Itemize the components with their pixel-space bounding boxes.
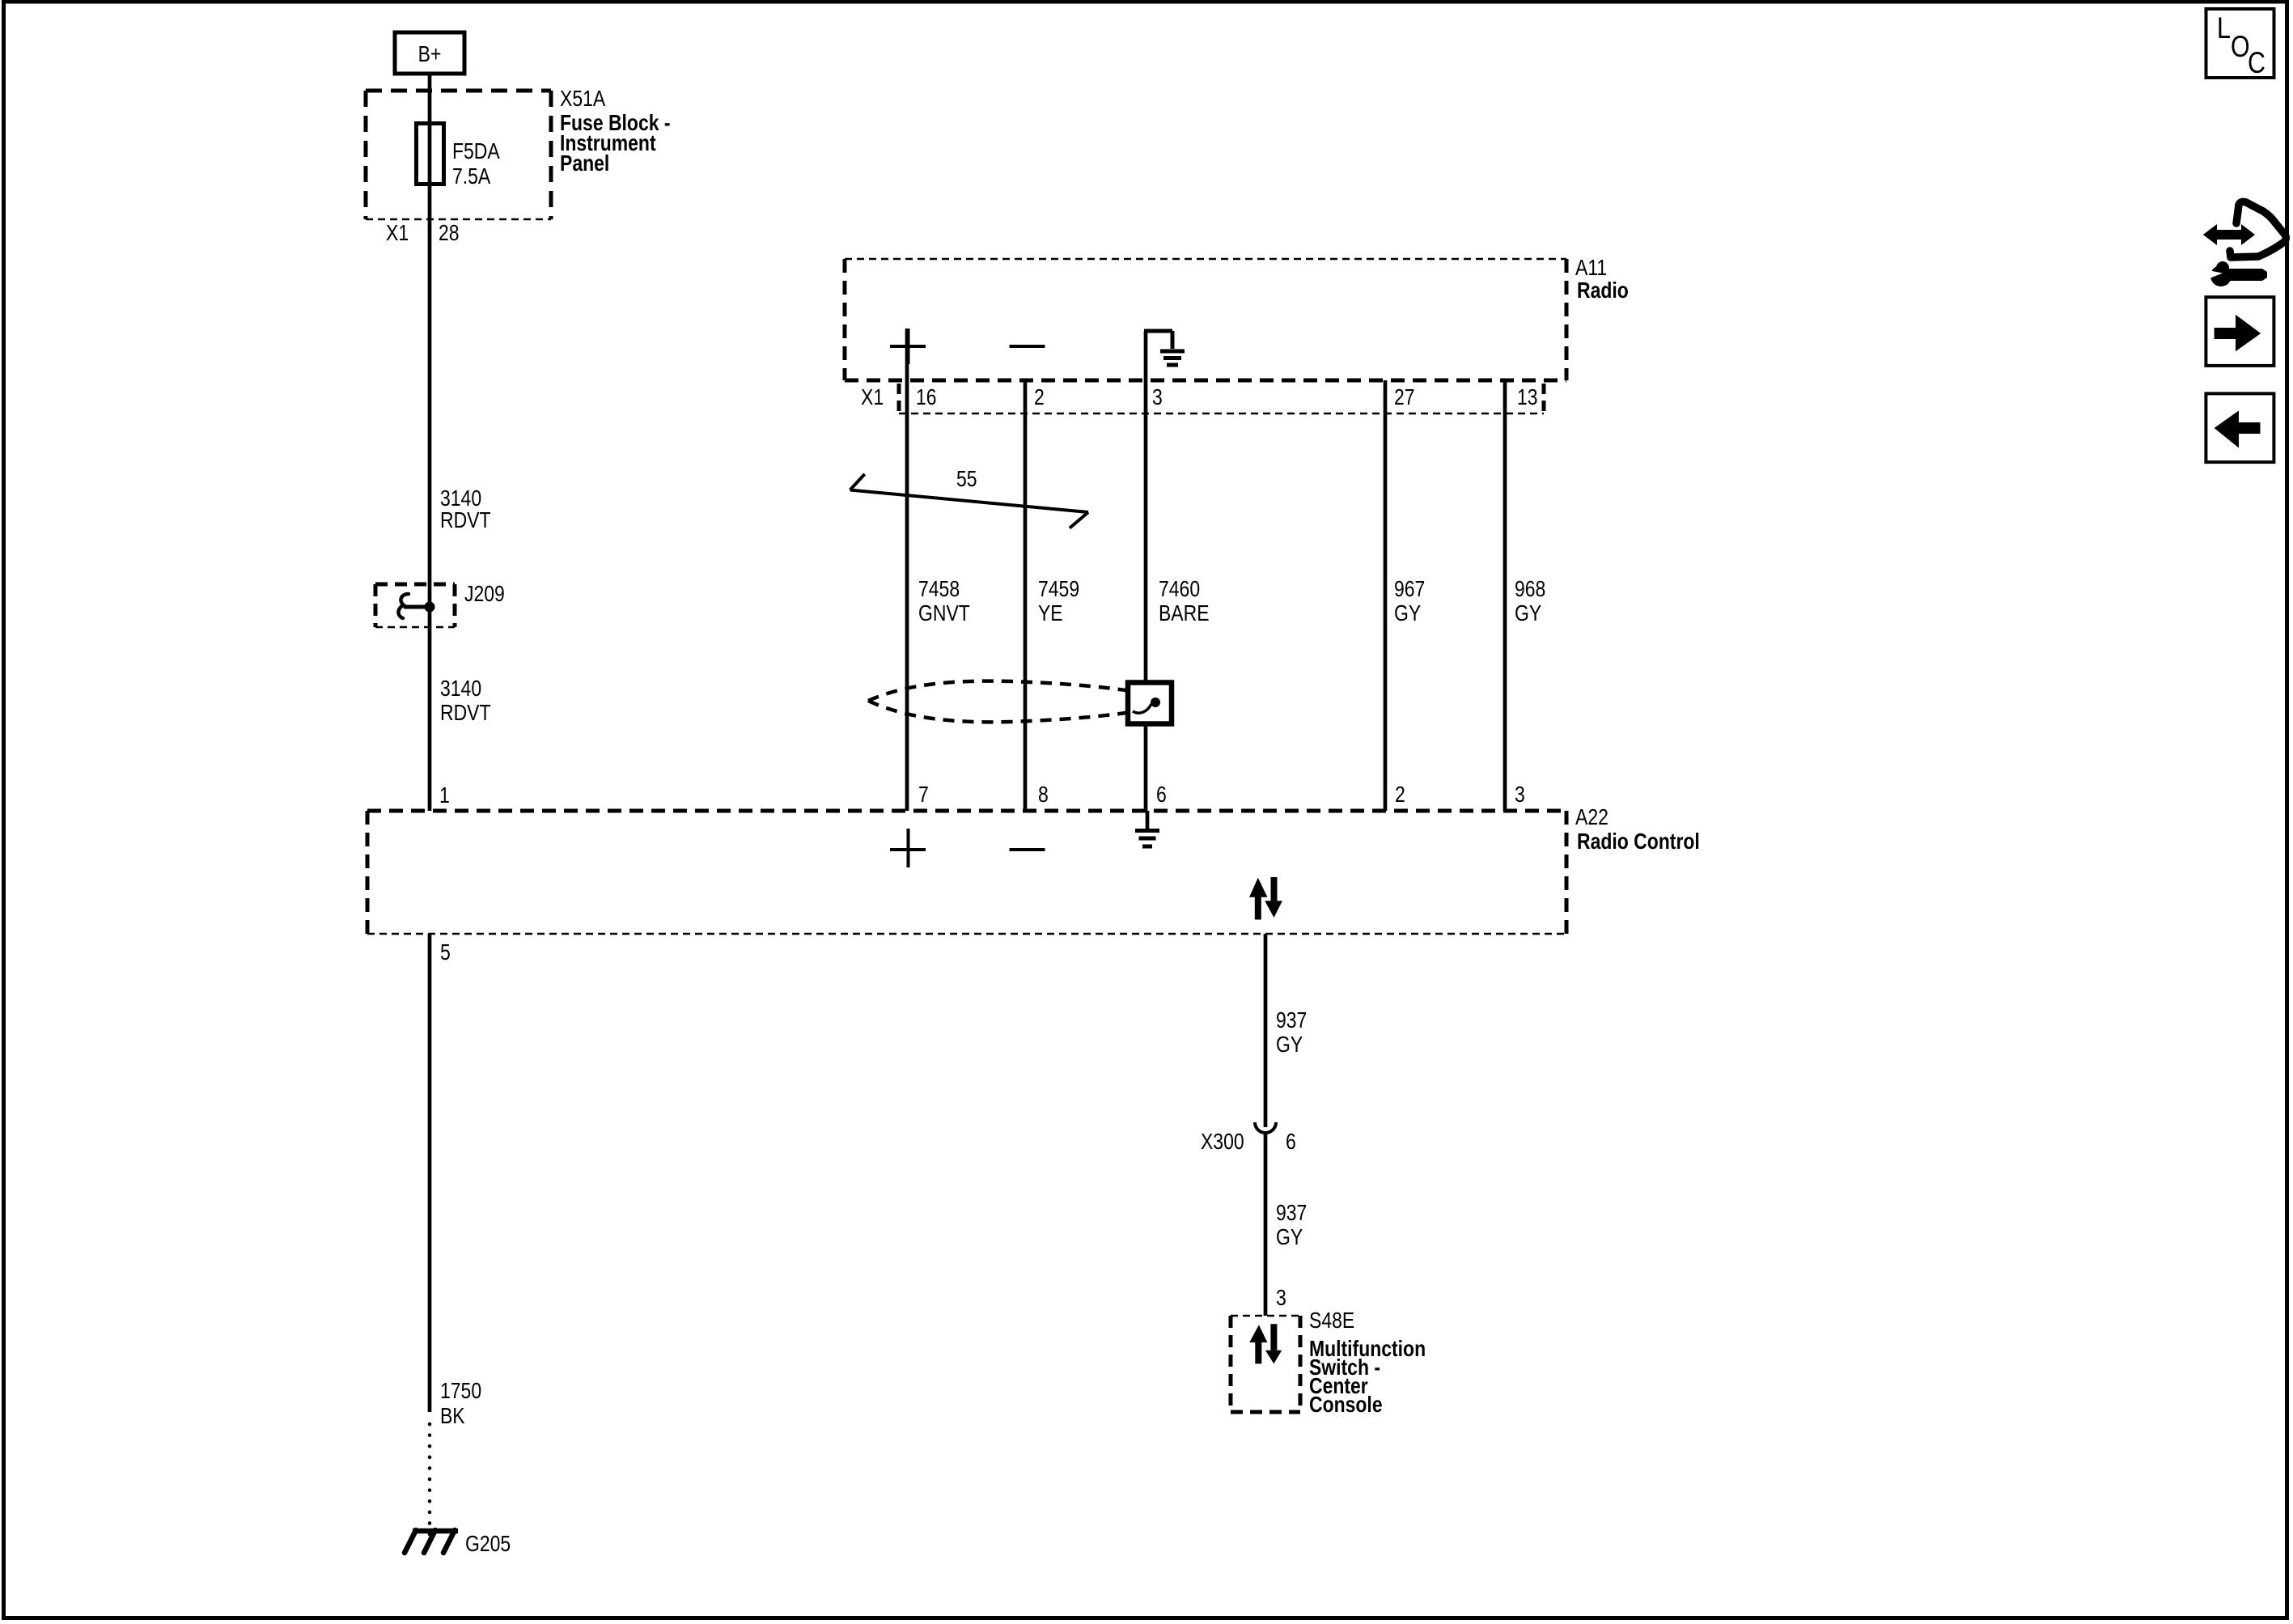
wire pin16 to A22 pin7 (7458 GNVT) [905,329,909,811]
A22 + terminal symbol [890,829,926,867]
svg-text:3: 3 [1515,782,1525,807]
svg-text:X1: X1 [386,220,409,245]
A22 - terminal symbol [1010,848,1045,851]
svg-text:6: 6 [1156,782,1167,807]
svg-text:8: 8 [1038,782,1049,807]
connector strip labels [861,384,1538,409]
harness 55 marker [850,466,1088,528]
svg-text:X300: X300 [1201,1129,1244,1154]
fuse F5DA 7.5A [417,124,500,189]
wire X300 to S48E lower segment [1264,1133,1268,1316]
svg-text:GY: GY [1515,600,1541,625]
svg-text:968: 968 [1515,576,1545,601]
svg-text:Panel: Panel [560,151,609,176]
svg-text:16: 16 [916,384,937,409]
svg-text:1: 1 [439,782,450,808]
A22 internal ground symbol [1135,811,1159,846]
wire pin13 to A22 pin3 (968 GY) [1503,380,1507,811]
wire label 1750 BK [440,1378,481,1428]
svg-text:A22: A22 [1575,804,1608,829]
S48E up/down arrows symbol [1249,1324,1282,1363]
svg-text:7.5A: 7.5A [452,163,490,189]
A22 Radio Control dashed box [367,811,1566,934]
splice J209 dashed box [375,584,455,627]
harness routing icon (double arrow + wire + wrench) [2203,201,2286,286]
svg-text:J209: J209 [464,581,505,606]
wire label 937 GY (upper) [1276,1007,1307,1057]
svg-text:RDVT: RDVT [440,507,491,532]
svg-text:B+: B+ [418,41,442,66]
svg-text:Radio Control: Radio Control [1577,829,1700,854]
svg-text:2: 2 [1034,384,1045,409]
svg-text:27: 27 [1394,384,1415,409]
wire A22 pin5 down (1750 BK) [428,934,432,1412]
radio - terminal symbol [1010,345,1045,348]
svg-text:7458: 7458 [918,576,960,601]
radio + terminal symbol [890,329,926,364]
svg-text:BK: BK [440,1403,465,1428]
svg-text:L: L [2217,11,2231,45]
svg-text:2: 2 [1395,782,1405,807]
svg-text:3: 3 [1276,1285,1286,1310]
label A11 Radio [1575,255,1629,303]
svg-text:55: 55 [956,466,977,491]
svg-text:967: 967 [1394,576,1425,601]
svg-text:GY: GY [1276,1032,1303,1057]
svg-text:YE: YE [1038,600,1063,625]
B+ power feed box [395,32,464,74]
svg-text:6: 6 [1286,1129,1296,1154]
wire labels 7458 GNVT / 7459 YE / 7460 BARE / 967 GY / 968 GY [918,576,970,625]
svg-text:X1: X1 [861,384,884,409]
svg-text:X51A: X51A [560,86,605,111]
svg-text:S48E: S48E [1309,1308,1354,1333]
svg-text:BARE: BARE [1159,600,1210,625]
svg-text:A11: A11 [1575,255,1607,280]
shield drain box on wire 7460 [1128,683,1172,724]
svg-text:937: 937 [1276,1007,1307,1032]
svg-text:C: C [2248,46,2265,79]
svg-text:7459: 7459 [1038,576,1079,601]
LOC navigation box [2206,9,2274,79]
A11 Radio dashed box [845,259,1566,380]
svg-text:GY: GY [1276,1224,1303,1249]
svg-text:F5DA: F5DA [452,138,500,163]
svg-text:GY: GY [1394,600,1421,625]
svg-text:5: 5 [440,939,451,965]
svg-text:3: 3 [1152,384,1163,409]
X1 connector strip of A11 [899,384,1544,413]
wire label 3140 RDVT (upper) [440,486,491,532]
S48E Multifunction Switch dashed box [1231,1316,1300,1412]
in-line connector X300 pin 6 [1201,1122,1296,1154]
label X51A Fuse Block - Instrument Panel [560,86,671,176]
svg-text:Console: Console [1309,1392,1383,1417]
A22 pin labels 7 8 6 2 3 [918,782,1525,807]
label A22 Radio Control [1575,804,1700,854]
svg-text:GNVT: GNVT [918,600,970,625]
ground G205 symbol [405,1530,458,1553]
svg-text:G205: G205 [465,1531,511,1556]
back arrow box [2206,393,2274,462]
wire label 937 GY (lower) [1276,1200,1307,1249]
svg-text:13: 13 [1517,384,1538,409]
dotted continuation wire to G205 [428,1424,432,1536]
svg-text:Radio: Radio [1577,278,1629,303]
wire pin2 to A22 pin8 (7459 YE) [1024,380,1028,811]
label S48E Multifunction Switch - Center Console [1309,1308,1426,1417]
wire label 3140 RDVT (lower) [440,676,491,725]
splice symbol J209 [398,594,434,618]
wire pin3 to A22 pin6 (7460 BARE) [1144,331,1148,811]
forward arrow box [2206,297,2274,366]
svg-text:3140: 3140 [440,676,481,701]
radio internal ground symbol [1144,331,1185,365]
svg-text:RDVT: RDVT [440,700,491,725]
svg-text:28: 28 [439,220,460,245]
wire B+ to fuse, through fuse, down to A22 pin 1 [428,74,432,811]
A22 up/down arrows symbol [1249,877,1282,920]
svg-text:1750: 1750 [440,1378,481,1403]
wire A22 to S48E (937 GY) upper segment [1264,934,1268,1127]
svg-text:7: 7 [918,782,929,807]
fuse block X51A dashed box [366,91,551,219]
svg-text:937: 937 [1276,1200,1307,1225]
svg-text:7460: 7460 [1159,576,1200,601]
wire pin27 to A22 pin2 (967 GY) [1384,380,1388,811]
twisted pair / shield lasso (dashed lens) [868,681,1153,723]
